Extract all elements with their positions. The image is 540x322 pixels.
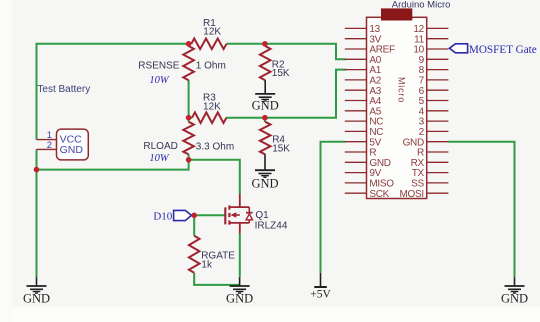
- wire R2 top stub: [264, 44, 266, 47]
- wire RLOAD bottom stub: [188, 154, 190, 160]
- wire RGATE top: [193, 215, 195, 236]
- svg-text:12K: 12K: [203, 101, 221, 112]
- pin VCC line: [37, 139, 57, 141]
- label R2: [272, 59, 290, 79]
- ground bottom-right: [501, 277, 528, 305]
- ic pin row 5V | GND: [345, 137, 449, 148]
- label Arduino Micro: [392, 0, 451, 10]
- resistor RSENSE body: [183, 46, 194, 80]
- ground bottom-middle: [226, 277, 253, 305]
- pin GND line: [37, 148, 57, 150]
- wire RGATE bottom to mid GND: [194, 273, 239, 285]
- ic pin row 13 | 12: [345, 24, 449, 35]
- svg-text:RLOAD: RLOAD: [143, 141, 177, 152]
- svg-text:GND: GND: [226, 291, 253, 305]
- svg-text:GND: GND: [251, 177, 278, 191]
- junction node 6: [34, 167, 40, 173]
- ic pin row A2 | 7: [345, 76, 449, 87]
- wire battery GND down to bottom-left GND: [36, 149, 38, 277]
- ic usb connector block: [381, 8, 412, 20]
- label Test Battery: [37, 84, 90, 95]
- svg-text:GND: GND: [252, 98, 279, 112]
- label Micro vertical: [397, 77, 407, 103]
- svg-text:SCK: SCK: [369, 189, 389, 200]
- label R4: [272, 135, 290, 155]
- label RSENSE 10W: [149, 75, 170, 86]
- resistor R4 body: [260, 122, 271, 155]
- ground GND under R4: [251, 154, 278, 190]
- wire battery VCC to top rail: [37, 44, 192, 140]
- ground GND under R2: [252, 80, 279, 112]
- ic pin row NC | 2: [345, 127, 449, 138]
- ic pin row A1 | 8: [345, 65, 449, 76]
- supply +5V: [310, 273, 331, 301]
- wire RSENSE top stub: [188, 44, 190, 47]
- label D10: [153, 211, 172, 223]
- svg-text:RSENSE: RSENSE: [138, 61, 179, 72]
- ic pin row SCK | MOSI: [345, 189, 449, 200]
- svg-text:15K: 15K: [272, 144, 290, 155]
- ic pin row AREF | 10: [345, 45, 449, 56]
- resistor R1 body: [191, 39, 226, 50]
- junction node 7: [191, 213, 197, 219]
- svg-text:3.3 Ohm: 3.3 Ohm: [196, 141, 234, 152]
- wire RLOAD top stub: [188, 118, 190, 122]
- svg-text:IRLZ44: IRLZ44: [255, 220, 288, 231]
- ic pin row 3V | 11: [345, 34, 449, 45]
- wire RSENSE bottom to node: [188, 80, 190, 119]
- resistor RLOAD body: [183, 122, 194, 155]
- label MOSFET Gate: [469, 44, 537, 56]
- ic pin row A3 | 6: [345, 86, 449, 97]
- junction node 3: [186, 115, 192, 121]
- wire R4 top stub: [264, 118, 266, 122]
- net flag D10: [174, 210, 192, 220]
- junction node 4: [262, 115, 268, 121]
- svg-text:2: 2: [47, 140, 52, 151]
- ic pin row A0 | 9: [345, 55, 449, 66]
- svg-text:12K: 12K: [203, 27, 221, 38]
- svg-text:D10: D10: [153, 211, 172, 223]
- ic Arduino Micro body: [367, 17, 427, 198]
- ic pin row A5 | 4: [345, 106, 449, 117]
- wire bottom-left row to RLOAD bottom node: [37, 160, 189, 170]
- ic pin row GND | RX: [345, 158, 449, 169]
- svg-text:Arduino Micro: Arduino Micro: [392, 0, 451, 10]
- ic pin row A4 | 5: [345, 96, 449, 107]
- label RLOAD 10W: [149, 153, 170, 164]
- wire node to R3: [189, 117, 192, 119]
- transistor Q1 IRLZ44 symbol: [225, 194, 252, 233]
- junction node 2: [262, 41, 268, 47]
- wire RLOAD node to MOSFET drain: [189, 160, 240, 195]
- svg-text:GND: GND: [501, 291, 528, 305]
- pin number 1: [47, 130, 52, 141]
- net flag MOSFET Gate: [449, 44, 467, 53]
- junction node 1: [186, 41, 192, 47]
- connector Test Battery box: [57, 129, 89, 160]
- resistor R3 body: [192, 112, 226, 123]
- ground bottom-left: [23, 277, 50, 305]
- label R3: [203, 93, 221, 113]
- svg-text:MOSI: MOSI: [400, 189, 424, 200]
- svg-text:GND: GND: [23, 291, 50, 305]
- ic pin row MISO | SS: [345, 179, 449, 190]
- pin number 2: [47, 140, 52, 151]
- pin name VCC: [60, 133, 83, 145]
- svg-text:MOSFET Gate: MOSFET Gate: [469, 44, 537, 56]
- ic pin row NC | 3: [345, 117, 449, 128]
- junction node 5: [186, 157, 192, 163]
- svg-text:Micro: Micro: [397, 77, 407, 103]
- svg-text:10W: 10W: [149, 153, 170, 164]
- resistor RGATE body: [189, 236, 200, 273]
- ic pin row R | R: [345, 148, 449, 159]
- svg-text:GND: GND: [60, 144, 84, 156]
- svg-text:1k: 1k: [201, 259, 213, 270]
- label Q1: [255, 210, 288, 231]
- label RLOAD: [143, 141, 234, 153]
- svg-text:15K: 15K: [272, 68, 290, 79]
- svg-text:10W: 10W: [149, 75, 170, 86]
- svg-text:+5V: +5V: [310, 288, 331, 300]
- wire top rail right to Arduino A0: [227, 44, 346, 60]
- wire MOSFET source down: [239, 233, 241, 277]
- label RGATE: [201, 251, 235, 271]
- svg-text:Test Battery: Test Battery: [37, 84, 90, 95]
- svg-text:1 Ohm: 1 Ohm: [196, 61, 226, 72]
- label R1: [203, 18, 221, 37]
- wire Arduino 5V to +5V symbol: [321, 142, 346, 273]
- label RSENSE: [138, 61, 226, 72]
- pin name GND: [60, 144, 84, 156]
- wire D10 gate row: [192, 214, 226, 216]
- resistor R2 body: [260, 46, 271, 80]
- ic pin row 9V | TX: [345, 168, 449, 179]
- wire Arduino GND to bottom-right GND: [448, 142, 514, 278]
- wire R3 right to Arduino A1: [226, 70, 346, 118]
